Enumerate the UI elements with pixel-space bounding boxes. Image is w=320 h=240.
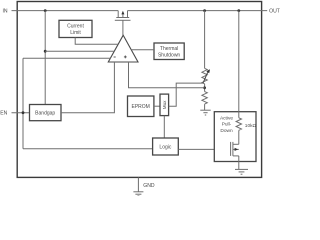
wire R2 to ground — [204, 104, 206, 110]
resistor R1 trimmed top divider — [202, 68, 207, 84]
block EPROM — [128, 96, 154, 117]
transistor Q1 pass PMOS — [115, 11, 131, 21]
wire Mux output to resistor trim — [169, 83, 203, 106]
wire R1 to R2 — [204, 84, 206, 92]
svg-text:IN: IN — [2, 9, 7, 15]
wire OUT rail down to R1 — [204, 11, 206, 69]
wire resistor to transistor drain — [238, 130, 240, 144]
svg-text:EPROM: EPROM — [132, 104, 150, 110]
wire EN rail to amplifier — [23, 57, 110, 59]
svg-text:Shutdown: Shutdown — [158, 53, 180, 59]
node junction dot OUT rail to divider — [203, 9, 206, 12]
node junction dot feedback tap — [203, 86, 206, 89]
wire Bandgap output to amplifier inverting input — [61, 62, 114, 113]
node junction dot supply branch — [44, 50, 47, 53]
ground under R2 — [200, 110, 210, 115]
outer IC boundary box — [17, 2, 261, 178]
wire EN rail vertical — [22, 58, 24, 149]
trim arrow through R1 — [203, 69, 210, 83]
svg-text:Pull-: Pull- — [222, 122, 232, 128]
wire Mux to Logic — [163, 116, 165, 138]
wire feedback tap to amplifier non-inverting input — [129, 62, 205, 88]
svg-text:OUT: OUT — [269, 9, 280, 15]
wire IN rail down to Bandgap — [44, 11, 46, 105]
transistor Q2 pulldown NMOS — [231, 142, 239, 156]
svg-text:Limit: Limit — [70, 30, 81, 36]
block Current Limit — [59, 20, 92, 37]
svg-text:Mux: Mux — [162, 100, 167, 109]
wire IN lead — [12, 10, 119, 12]
svg-text:Bandgap: Bandgap — [35, 111, 55, 117]
wire transistor source to ground — [238, 156, 240, 170]
wire EN rail to Logic — [23, 148, 153, 150]
wire Logic to pulldown gate — [178, 148, 230, 150]
svg-text:Down: Down — [220, 128, 233, 134]
wire Thermal Shutdown to amplifier — [131, 49, 154, 51]
wire gate of Q1 to amplifier output — [122, 20, 124, 35]
svg-text:10kΩ: 10kΩ — [245, 123, 257, 129]
block Logic — [153, 138, 179, 155]
svg-text:Current: Current — [67, 24, 84, 30]
node junction dot EN — [22, 111, 25, 114]
svg-text:Active: Active — [220, 116, 233, 122]
block Bandgap — [30, 105, 62, 121]
svg-text:GND: GND — [143, 183, 155, 189]
wire EN lead — [12, 112, 30, 114]
svg-text:Logic: Logic — [159, 145, 171, 151]
wire EPROM to Mux — [154, 105, 160, 107]
block Thermal Shutdown — [154, 43, 184, 60]
node junction dot OUT rail to pulldown — [237, 9, 240, 12]
wire supply branch to amplifier — [45, 50, 114, 52]
ground GND pin symbol — [133, 192, 143, 196]
resistor R2 bottom divider — [202, 92, 207, 105]
wire GND pin — [137, 177, 139, 191]
wire Current Limit to amplifier — [75, 38, 118, 45]
svg-text:EN: EN — [0, 111, 7, 117]
ground under pulldown — [235, 169, 248, 174]
resistor 10k pulldown — [236, 118, 241, 131]
block Mux — [160, 94, 169, 116]
block Active Pull-Down — [214, 112, 256, 162]
wire OUT rail down to pulldown resistor — [238, 11, 240, 118]
svg-text:Thermal: Thermal — [160, 46, 178, 52]
wire OUT rail — [128, 10, 268, 12]
op-amp U1 error amplifier — [108, 35, 138, 62]
node junction dot on IN rail — [44, 9, 47, 12]
